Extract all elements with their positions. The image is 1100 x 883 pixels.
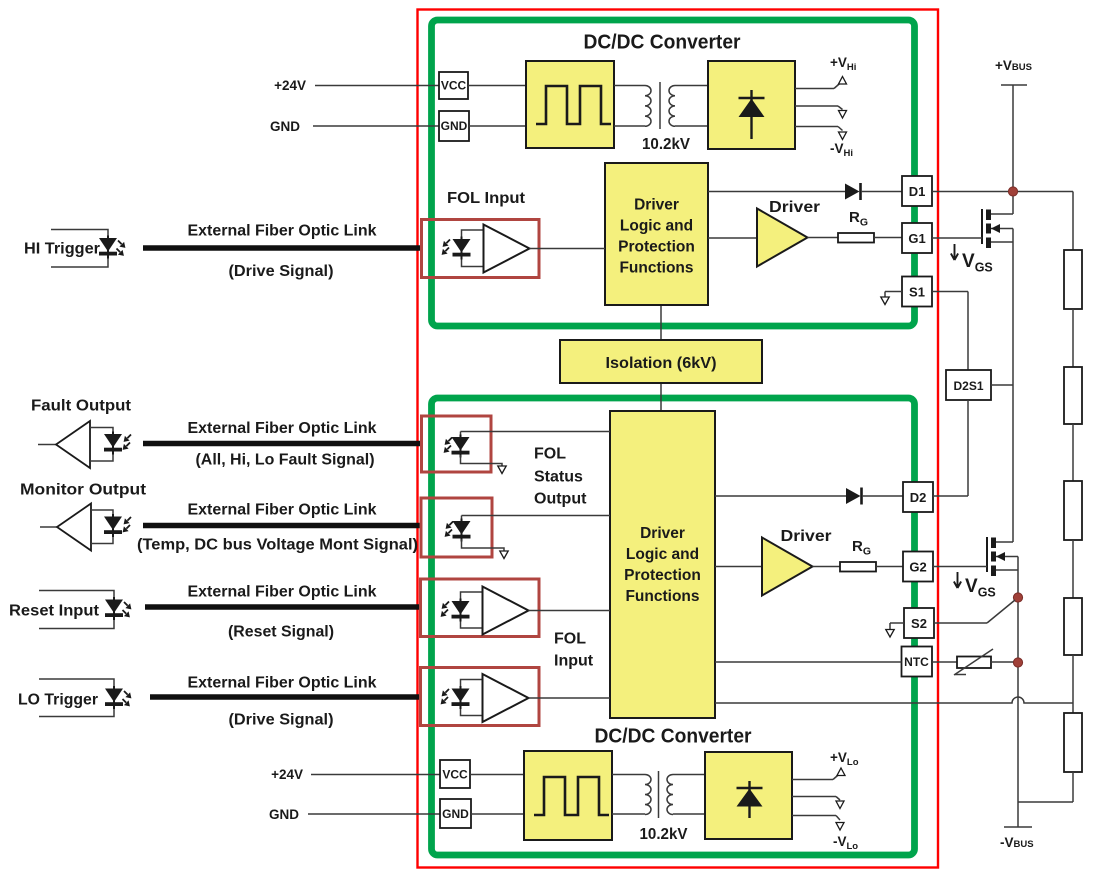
svg-text:Status: Status [534,469,583,486]
svg-text:GND: GND [442,807,469,821]
svg-text:Output: Output [534,491,587,508]
svg-text:Reset Input: Reset Input [9,603,99,620]
svg-text:NTC: NTC [904,655,929,669]
svg-text:G2: G2 [909,560,926,575]
svg-text:Functions: Functions [619,260,693,277]
svg-text:10.2kV: 10.2kV [640,826,688,843]
svg-text:GND: GND [441,119,468,133]
svg-text:Protection: Protection [624,567,701,584]
svg-text:GND: GND [270,119,300,134]
svg-text:D1: D1 [909,184,926,199]
svg-text:Input: Input [554,653,594,670]
svg-text:GND: GND [269,807,299,822]
svg-text:VCC: VCC [441,79,467,93]
svg-text:(Temp, DC bus Voltage Mont Sig: (Temp, DC bus Voltage Mont Signal) [137,537,418,554]
svg-text:(Drive Signal): (Drive Signal) [229,263,334,280]
svg-text:External Fiber Optic Link: External Fiber Optic Link [188,223,377,240]
svg-text:+24V: +24V [274,78,306,93]
svg-text:S1: S1 [909,285,925,300]
svg-text:D2: D2 [910,490,927,505]
svg-text:G1: G1 [908,231,925,246]
svg-text:(All, Hi, Lo Fault Signal): (All, Hi, Lo Fault Signal) [196,452,375,469]
svg-text:Driver: Driver [781,528,832,545]
svg-text:+24V: +24V [271,767,303,782]
svg-text:LO Trigger: LO Trigger [18,692,98,709]
svg-text:External Fiber Optic Link: External Fiber Optic Link [188,420,377,437]
svg-text:External Fiber Optic Link: External Fiber Optic Link [188,502,377,519]
svg-text:S2: S2 [911,616,927,631]
svg-text:HI Trigger: HI Trigger [24,241,100,258]
svg-text:External Fiber Optic Link: External Fiber Optic Link [188,584,377,601]
svg-text:External Fiber Optic Link: External Fiber Optic Link [188,675,377,692]
svg-text:Driver: Driver [769,199,820,216]
svg-text:Isolation (6kV): Isolation (6kV) [606,355,717,372]
svg-text:10.2kV: 10.2kV [642,136,690,153]
svg-text:Driver: Driver [634,197,679,214]
svg-text:Functions: Functions [625,588,699,605]
svg-text:Protection: Protection [618,239,695,256]
svg-text:Monitor Output: Monitor Output [20,482,146,499]
svg-text:Logic and: Logic and [626,546,699,563]
svg-text:Fault Output: Fault Output [31,398,131,415]
svg-text:VCC: VCC [442,768,468,782]
svg-text:FOL Input: FOL Input [447,190,526,207]
svg-text:(Reset Signal): (Reset Signal) [228,624,334,641]
svg-text:(Drive Signal): (Drive Signal) [229,712,334,729]
svg-text:FOL: FOL [534,446,566,463]
svg-text:D2S1: D2S1 [953,379,983,393]
svg-text:DC/DC Converter: DC/DC Converter [584,32,741,54]
svg-text:FOL: FOL [554,631,586,648]
svg-text:Driver: Driver [640,525,685,542]
svg-text:Logic and: Logic and [620,218,693,235]
svg-text:DC/DC Converter: DC/DC Converter [595,726,752,748]
